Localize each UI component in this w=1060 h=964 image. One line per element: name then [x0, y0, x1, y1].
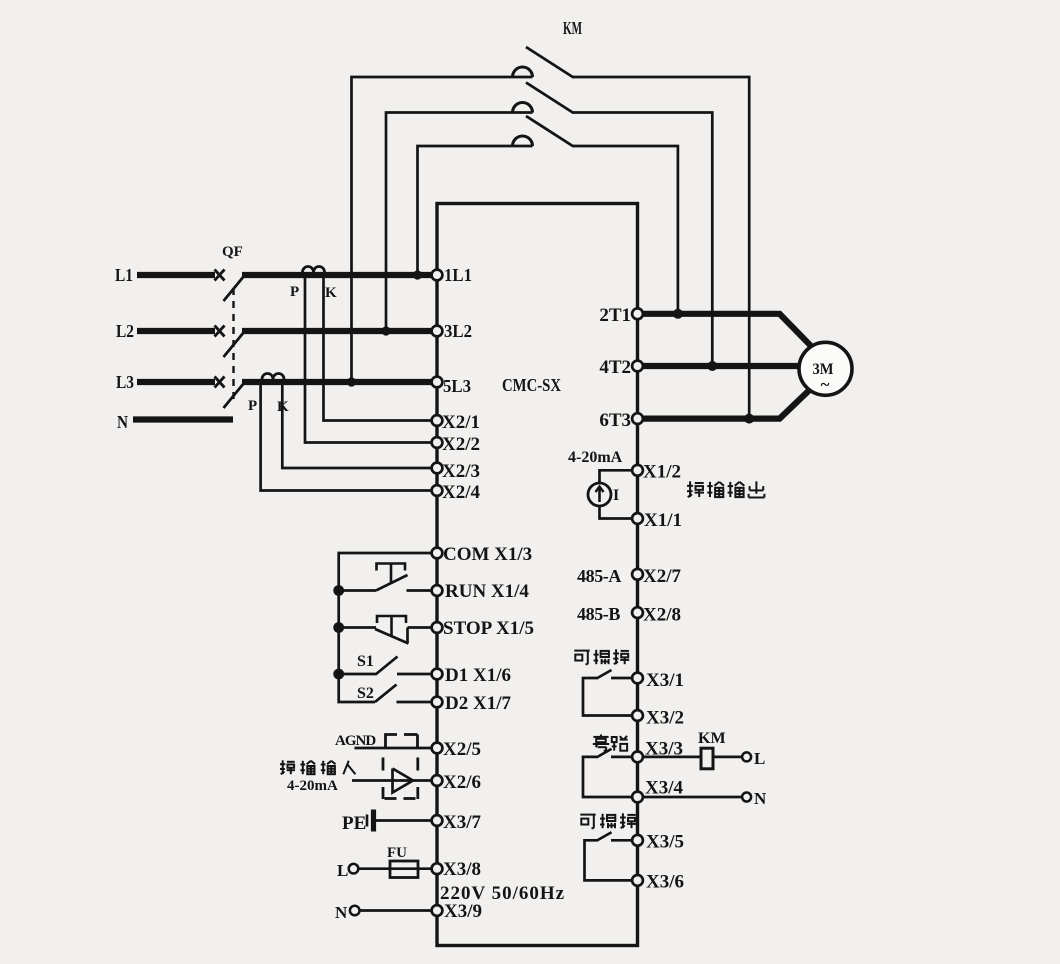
pushbutton RUN (NO) actuator — [377, 564, 406, 571]
switch S2 — [375, 685, 397, 703]
junction on bus at D1 — [333, 669, 344, 680]
terminal X3/6 — [632, 875, 643, 886]
wire relay loop — [583, 678, 633, 716]
terminal X3/9 on left edge — [432, 905, 443, 916]
junction on 4T2 line — [707, 361, 717, 371]
svg-text:FU: FU — [387, 845, 407, 861]
motor M 3-phase — [799, 342, 852, 395]
KM contact 1 hump — [513, 67, 533, 77]
KM contact 3 blade — [526, 116, 574, 147]
svg-text:X2/5: X2/5 — [443, 739, 481, 760]
terminal X2/6 on left edge — [432, 775, 443, 786]
svg-text:S1: S1 — [357, 653, 374, 670]
svg-text:PE: PE — [342, 813, 366, 834]
label analog output (Chinese) 模拟输出 — [687, 481, 704, 497]
svg-text:2T1: 2T1 — [599, 305, 631, 326]
svg-text:4-20mA: 4-20mA — [287, 778, 338, 794]
wire L2 after breaker — [242, 328, 433, 334]
CT on L3 primary humps P K — [262, 374, 284, 379]
svg-text:P: P — [248, 398, 257, 414]
wire PE to X3/7 — [376, 819, 432, 822]
breaker QF pole L1 blade — [224, 276, 245, 301]
wire X1/2 to current source — [600, 470, 634, 483]
svg-text:COM X1/3: COM X1/3 — [443, 544, 532, 565]
terminal X2/2 on left edge — [432, 437, 443, 448]
svg-text:X3/2: X3/2 — [646, 708, 684, 729]
svg-text:KM: KM — [563, 18, 582, 38]
svg-text:L2: L2 — [116, 321, 134, 341]
terminal 4T2 — [632, 361, 643, 372]
soft starter box CMC-SX outline — [437, 204, 638, 946]
svg-text:N: N — [117, 412, 128, 432]
svg-text:X3/8: X3/8 — [443, 859, 481, 880]
svg-text:X1/1: X1/1 — [644, 510, 682, 531]
terminal 6T3 — [632, 413, 643, 424]
terminal X2/8 — [632, 607, 643, 618]
svg-text:X3/5: X3/5 — [646, 832, 684, 853]
wire X3/4 to N — [642, 796, 742, 799]
svg-text:4T2: 4T2 — [599, 357, 631, 378]
pushbutton STOP (NC) actuator — [377, 616, 406, 623]
node L (supply live) — [349, 864, 359, 874]
svg-text:220V 50/60Hz: 220V 50/60Hz — [440, 883, 565, 904]
CT on L1 primary humps P K — [303, 267, 325, 273]
terminal X2/7 — [632, 569, 643, 580]
shield bracket over AGND (dashed) — [386, 735, 398, 749]
terminal 3L2 on left edge — [432, 326, 443, 337]
wire L3 after breaker — [242, 379, 433, 385]
terminal X1/2 — [632, 465, 643, 476]
svg-text:~: ~ — [821, 375, 830, 394]
svg-text:X2/6: X2/6 — [443, 772, 481, 793]
relay contact blade — [597, 749, 612, 758]
node L (coil supply) — [742, 752, 751, 761]
KM contact 3 hump — [513, 136, 533, 146]
wire L1 CT P side to X2/2 — [305, 274, 432, 443]
breaker QF pole L3 fixed contact x — [215, 377, 225, 388]
wire KM loop left L3 to 6T3 (outer loop) — [352, 77, 533, 382]
wire KM loop right L3 to 6T3 (outer loop) — [573, 77, 749, 419]
svg-text:485-B: 485-B — [577, 604, 620, 624]
label programmable (Chinese) 可编程 #2 — [580, 815, 595, 829]
svg-text:STOP X1/5: STOP X1/5 — [443, 618, 534, 639]
wire analog input to X2/6 — [352, 779, 432, 782]
wire L3 CT K side to X2/3 — [282, 381, 432, 468]
wire 4T2 to motor — [642, 363, 800, 369]
fuse FU body — [390, 861, 418, 878]
svg-text:X2/8: X2/8 — [643, 605, 681, 626]
breaker QF pole L3 blade — [224, 383, 245, 408]
wire L1 CT K side to X2/1 — [324, 274, 433, 421]
wire 6T3 to motor — [642, 389, 811, 419]
switch S1 — [339, 673, 376, 676]
terminal X1/1 — [632, 513, 643, 524]
wire N to X3/9 — [360, 909, 432, 912]
svg-text:X2/4: X2/4 — [442, 482, 481, 503]
breaker QF pole L1 fixed contact x — [215, 270, 225, 281]
terminal X3/3 — [632, 752, 643, 763]
wire KM loop right L2 to 4T2 (middle loop) — [573, 113, 712, 367]
pushbutton RUN (NO) contact — [339, 589, 376, 592]
junction on L2 line — [381, 326, 390, 335]
terminal X3/7 on left edge — [432, 815, 443, 826]
svg-text:D2 X1/7: D2 X1/7 — [445, 693, 511, 714]
terminal 2T1 — [632, 308, 643, 319]
wire L through fuse to X3/8 — [359, 867, 433, 870]
svg-text:AGND: AGND — [335, 733, 376, 749]
terminal COM on left edge — [432, 548, 443, 559]
svg-text:1L1: 1L1 — [444, 265, 472, 285]
svg-text:485-A: 485-A — [577, 566, 621, 586]
svg-text:X1/2: X1/2 — [643, 462, 681, 483]
svg-text:4-20mA: 4-20mA — [568, 449, 623, 466]
terminal X3/1 — [632, 673, 643, 684]
svg-text:S2: S2 — [357, 685, 374, 702]
svg-text:5L3: 5L3 — [443, 376, 471, 396]
wire relay loop — [585, 840, 634, 880]
node N (supply neutral) — [350, 906, 360, 916]
svg-text:K: K — [325, 285, 337, 301]
terminal STOP on left edge — [432, 622, 443, 633]
KM contact 2 blade — [526, 83, 574, 114]
wire current source to X1/1 — [600, 506, 634, 519]
breaker QF pole L2 fixed contact x — [215, 326, 225, 337]
svg-text:L1: L1 — [115, 265, 133, 285]
junction on L1 line — [413, 270, 422, 279]
svg-text:L: L — [754, 749, 765, 768]
label bypass (Chinese) 旁路 — [593, 735, 609, 751]
pushbutton STOP (NC) contact — [339, 626, 376, 629]
wire L3 input segment — [137, 379, 215, 385]
wire L1 input segment — [137, 272, 215, 278]
svg-text:CMC-SX: CMC-SX — [502, 375, 561, 395]
junction on bus at STOP — [333, 622, 344, 633]
wire AGND to X2/5 — [355, 747, 433, 750]
terminal 5L3 on left edge — [432, 377, 443, 388]
wire 2T1 to motor — [642, 314, 811, 346]
KM contact 2 hump — [513, 103, 533, 113]
wire relay loop — [583, 757, 633, 797]
svg-text:L3: L3 — [116, 372, 134, 392]
svg-text:N: N — [754, 789, 767, 808]
svg-text:3L2: 3L2 — [444, 321, 472, 341]
svg-text:X2/2: X2/2 — [442, 434, 480, 455]
wire contact to terminal — [611, 756, 633, 759]
terminal D2 on left edge — [432, 697, 443, 708]
amplifier shield box (dashed) — [382, 758, 385, 771]
svg-text:X3/6: X3/6 — [646, 872, 684, 893]
terminal 1L1 on left edge — [432, 270, 443, 281]
wire L2 input segment — [137, 328, 215, 334]
label programmable (Chinese) 可编程 #1 — [574, 651, 589, 665]
wire KM coil to L — [713, 756, 742, 759]
KM contact 1 blade — [526, 47, 574, 78]
junction on L3 line — [347, 377, 356, 386]
wire L1 after breaker — [242, 272, 433, 278]
svg-text:P: P — [290, 284, 299, 300]
wire contact to terminal — [611, 839, 633, 842]
terminal X3/5 — [632, 835, 643, 846]
terminal X3/8 on left edge — [432, 863, 443, 874]
svg-text:KM: KM — [698, 730, 726, 747]
relay contact blade — [597, 670, 612, 679]
svg-text:N: N — [335, 903, 348, 922]
svg-text:X3/9: X3/9 — [444, 901, 482, 922]
svg-text:6T3: 6T3 — [599, 410, 631, 431]
svg-text:X3/7: X3/7 — [443, 812, 482, 833]
terminal X3/4 — [632, 792, 643, 803]
wire KM loop left L2 to 4T2 (middle loop) — [386, 113, 533, 332]
svg-text:X2/3: X2/3 — [442, 461, 480, 482]
svg-text:X3/1: X3/1 — [646, 670, 684, 691]
svg-text:I: I — [613, 487, 619, 504]
amplifier triangle — [393, 769, 414, 793]
terminal X2/1 on left edge — [432, 415, 443, 426]
svg-text:RUN X1/4: RUN X1/4 — [445, 581, 529, 602]
wire KM loop left L1 to 2T1 (inner loop) — [418, 146, 533, 275]
wire X3/3 to KM coil — [642, 756, 701, 759]
wire L3 CT P side to X2/4 — [261, 381, 432, 491]
terminal D1 on left edge — [432, 669, 443, 680]
junction on 2T1 line — [673, 309, 683, 319]
relay contact blade — [597, 832, 612, 841]
terminal X3/2 — [632, 710, 643, 721]
junction on bus at RUN — [333, 585, 344, 596]
terminal X2/3 on left edge — [432, 463, 443, 474]
junction on 6T3 line — [744, 414, 754, 424]
svg-text:X3/4: X3/4 — [645, 778, 684, 799]
terminal X2/4 on left edge — [432, 485, 443, 496]
label analog input (Chinese) 模拟输入 — [280, 760, 295, 774]
wire COM bus from X1/3 — [339, 553, 432, 702]
breaker QF linkage (dashed) — [232, 288, 234, 401]
terminal RUN on left edge — [432, 585, 443, 596]
svg-text:QF: QF — [222, 244, 243, 260]
PE earth symbol — [366, 815, 369, 827]
wire N input — [133, 416, 233, 422]
node N (coil supply) — [742, 793, 751, 802]
terminal X2/5 on left edge — [432, 743, 443, 754]
svg-text:D1 X1/6: D1 X1/6 — [445, 665, 511, 686]
wire contact to terminal — [611, 677, 633, 680]
svg-text:X2/7: X2/7 — [643, 566, 682, 587]
KM coil — [701, 748, 713, 769]
breaker QF pole L2 blade — [224, 332, 245, 357]
wire KM loop right L1 to 2T1 (inner loop) — [573, 146, 678, 314]
current source I (circle with arrow) — [588, 483, 611, 506]
svg-text:L: L — [337, 861, 348, 880]
svg-text:X2/1: X2/1 — [442, 412, 480, 433]
